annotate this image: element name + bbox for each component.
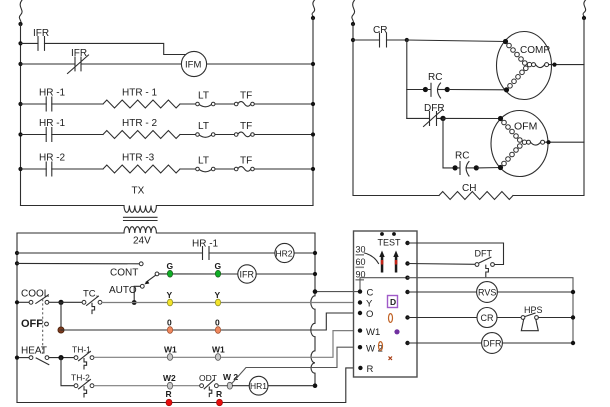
svg-text:CH: CH <box>462 183 476 194</box>
thermal fuse TF row 3 <box>234 91 313 107</box>
limit switch LT row 4 <box>180 121 234 137</box>
contact HR-1 row 3 <box>21 88 104 112</box>
svg-text:D: D <box>390 297 396 307</box>
node Y thermostat terminal 2 <box>215 290 221 306</box>
relay coil IFR <box>238 265 256 283</box>
svg-text:R: R <box>166 389 172 399</box>
svg-text:DFT: DFT <box>475 249 493 259</box>
node board pin DFR <box>405 341 409 345</box>
svg-text:Y: Y <box>167 290 173 300</box>
svg-text:DFR: DFR <box>424 103 445 114</box>
svg-text:ODT: ODT <box>199 373 217 383</box>
OFM winding common arm <box>498 144 522 170</box>
wire HPS to right vertical <box>538 317 573 319</box>
outdoor thermostat switch ODT <box>199 373 218 397</box>
transformer TX primary winding <box>124 186 156 213</box>
wire bottom R rail <box>17 368 358 403</box>
svg-text:HR2: HR2 <box>276 249 293 259</box>
defrost board outline <box>354 231 418 377</box>
resistor HTR-1 <box>103 88 180 109</box>
node right rail heater row 3 <box>311 167 315 171</box>
terminal W1 <box>358 327 380 338</box>
wire 24V top rail <box>17 232 315 234</box>
node left rail HEAT row <box>15 356 19 360</box>
OFM winding start arm <box>498 116 522 142</box>
svg-text:TF: TF <box>240 91 252 102</box>
wire W1 row <box>94 331 358 358</box>
node L1 rail top <box>18 22 22 26</box>
relay coil CR <box>477 308 497 328</box>
node right rail IFM row <box>311 62 315 66</box>
svg-text:OFF: OFF <box>21 318 43 330</box>
svg-text:60: 60 <box>356 257 366 267</box>
relay coil DFR <box>482 333 503 354</box>
node right rail G row <box>313 272 317 276</box>
node right rail C row <box>313 289 318 294</box>
node left rail IFM row <box>18 62 22 66</box>
node O thermostat terminal 2 <box>215 318 221 334</box>
node board top pin 1 <box>380 232 384 236</box>
node left rail heater row 1 <box>18 102 22 106</box>
node condenser right rail top <box>582 16 586 20</box>
svg-text:LT: LT <box>198 156 209 167</box>
pressure switch HPS <box>521 305 542 331</box>
node right vertical CR row <box>571 315 575 319</box>
svg-text:G: G <box>167 261 174 271</box>
wire IFR to right rail <box>256 273 315 275</box>
wire condenser right rail <box>513 18 584 196</box>
label 30 with underline <box>356 245 366 255</box>
node G thermostat terminal 1 <box>167 261 174 277</box>
wire left rail 24V ladder <box>16 233 18 403</box>
wire L2 supply squiggle top-right of left ladder <box>312 0 315 18</box>
node left rail CONT row <box>15 261 19 265</box>
node L2 rail top <box>311 16 315 20</box>
svg-text:HR -1: HR -1 <box>39 118 66 129</box>
terminal W2 <box>358 344 383 355</box>
wire RVS to right vertical <box>497 291 573 293</box>
svg-text:W 2: W 2 <box>366 344 383 355</box>
svg-text:DFR: DFR <box>483 339 502 349</box>
svg-text:CR: CR <box>481 313 494 323</box>
system switch linkage (dashed) <box>42 299 44 355</box>
node left rail IFR row <box>18 41 22 45</box>
svg-text:RVS: RVS <box>478 288 496 298</box>
wire AUTO terminal down to Y row <box>134 286 140 302</box>
system switch COOL <box>17 289 59 305</box>
wire DFR to right vertical <box>502 342 573 344</box>
svg-text:OFM: OFM <box>514 121 537 133</box>
COMP winding common arm <box>504 66 528 92</box>
svg-text:R: R <box>216 389 222 399</box>
wire C terminal jog inside board <box>315 278 408 292</box>
test pin 1 (arrow) <box>379 251 384 273</box>
wire Y row <box>102 302 358 304</box>
svg-text:HTR -3: HTR -3 <box>122 153 155 164</box>
fan switch blade with arrow <box>144 275 156 284</box>
svg-text:HEAT: HEAT <box>21 346 47 357</box>
svg-text:W2: W2 <box>163 373 176 383</box>
node O row junction (brown) <box>58 327 64 333</box>
svg-text:0: 0 <box>215 318 220 328</box>
svg-text:C: C <box>367 288 374 299</box>
wire board to CR <box>408 317 478 319</box>
svg-text:IFM: IFM <box>185 60 201 71</box>
COMP internal overload and run terminal <box>527 62 584 67</box>
contact DFR (N.C.) <box>407 103 501 127</box>
wire supply squiggle left <box>352 0 355 24</box>
wire W2 row to ODT <box>94 385 200 387</box>
node board pin CR <box>405 315 409 319</box>
wire board to RVS <box>408 291 477 293</box>
heating stage 1 switch TH-1 <box>72 345 94 369</box>
svg-text:COOL: COOL <box>21 289 50 300</box>
svg-text:W 2: W 2 <box>223 372 238 382</box>
node right rail end at HR1 row <box>313 383 318 388</box>
test pin 2 (arrow) <box>393 251 398 273</box>
svg-text:IFR: IFR <box>71 48 87 59</box>
node right vertical DFR row <box>571 341 575 345</box>
svg-text:COMP: COMP <box>520 45 550 56</box>
node left rail COOL row <box>15 300 19 304</box>
svg-text:IFR: IFR <box>240 270 255 280</box>
thermostat cooling switch TC <box>82 289 102 314</box>
contact CR <box>353 25 407 47</box>
terminal R <box>358 364 373 375</box>
node CR junction <box>405 38 409 42</box>
contact IFR (N.O.) row 1 <box>21 28 187 55</box>
node W2 thermostat terminal 2 <box>223 372 238 389</box>
svg-text:RC: RC <box>428 72 442 83</box>
thermal fuse TF row 4 <box>234 121 313 137</box>
wire L1 supply squiggle top-left <box>19 0 22 24</box>
wire branch vertical DFR to RC2 <box>443 118 453 167</box>
svg-text:IFR: IFR <box>33 28 49 39</box>
wire condenser left rail <box>353 24 439 196</box>
system switch OFF position <box>21 318 48 330</box>
motor IFM <box>181 51 206 76</box>
wire right rail top-left ladder <box>312 18 314 206</box>
svg-text:HTR - 2: HTR - 2 <box>122 118 157 129</box>
OFM internal overload and run terminal <box>522 140 584 145</box>
node W1 thermostat terminal 1 <box>164 345 177 361</box>
limit switch LT row 3 <box>180 91 234 107</box>
wire jumper from 30 to test pin <box>365 253 379 264</box>
wire C line to right vertical <box>408 278 574 343</box>
svg-text:HR -1: HR -1 <box>192 239 219 250</box>
svg-text:HR -2: HR -2 <box>39 153 66 164</box>
node W1 thermostat terminal 2 <box>212 345 225 361</box>
svg-text:RC: RC <box>455 151 469 162</box>
capacitor RC (fan run cap) <box>453 151 501 177</box>
contact HR-1 row 4 <box>21 118 104 142</box>
node left rail heater row 3 <box>18 167 22 171</box>
wire board to DFR <box>408 342 482 344</box>
wire bottom rail of top-left ladder <box>21 205 314 207</box>
capacitor RC (compressor run cap) <box>407 72 507 98</box>
fan switch pivot <box>155 272 159 276</box>
svg-text:HR -1: HR -1 <box>39 88 66 99</box>
resistor CH (crankcase heater) <box>439 183 513 200</box>
relay coil HR2 <box>275 243 294 262</box>
node R thermostat terminal 2 <box>216 389 223 406</box>
transformer TX secondary winding 24V <box>124 227 156 247</box>
wire COOL junction down to O row <box>60 302 62 330</box>
solenoid RVS <box>477 282 498 303</box>
svg-text:0: 0 <box>167 318 172 328</box>
svg-text:O: O <box>366 309 373 320</box>
node HEAT output junction <box>58 355 63 360</box>
node left rail heater row 2 <box>18 132 22 136</box>
label 60 with underline <box>356 257 366 267</box>
wire HR2 to right rail <box>294 252 315 254</box>
svg-text:W1: W1 <box>366 327 380 338</box>
node right vertical RVS row <box>571 290 575 294</box>
node board pin RVS <box>405 290 409 294</box>
motor COMP (compressor) <box>497 32 552 100</box>
wire board to DFT <box>408 263 476 266</box>
wire HEAT junction down to TH-2 row <box>61 358 74 386</box>
svg-text:W1: W1 <box>212 345 225 355</box>
svg-text:R: R <box>367 364 374 375</box>
node W2 thermostat terminal 1 <box>163 373 176 389</box>
svg-text:AUTO: AUTO <box>109 285 137 296</box>
wire COOL junction to TC <box>59 301 82 303</box>
component red mark on board <box>389 357 393 361</box>
node board pin C out <box>405 276 409 280</box>
svg-text:TH-2: TH-2 <box>71 373 90 383</box>
contact HR-1 (24V) <box>17 239 275 260</box>
limit switch LT row 5 <box>180 156 234 172</box>
node board pin DFT loop <box>405 241 409 245</box>
resistor HTR-3 <box>103 153 180 174</box>
svg-text:G: G <box>215 261 222 271</box>
svg-text:24V: 24V <box>133 236 151 247</box>
node right rail HR-1 row <box>313 251 317 255</box>
component D relay on board <box>388 296 398 308</box>
node AUTO to Y row junction <box>132 300 137 305</box>
svg-text:TF: TF <box>240 121 252 132</box>
node board top pin 2 <box>392 232 396 236</box>
label 90 with underline <box>356 270 366 280</box>
terminal C <box>358 288 374 299</box>
node COOL output junction <box>58 300 63 305</box>
svg-text:CR: CR <box>373 25 387 36</box>
wire CR to COMP run winding <box>407 40 506 42</box>
svg-text:TF: TF <box>240 156 252 167</box>
node O thermostat terminal 1 <box>167 318 173 334</box>
motor OFM (outdoor fan) <box>491 111 548 177</box>
svg-text:Y: Y <box>366 299 373 310</box>
resistor HTR-2 <box>103 118 180 139</box>
defrost thermostat DFT <box>475 249 495 277</box>
component purple dot on board <box>394 329 399 334</box>
node G thermostat terminal 2 <box>215 261 222 277</box>
thermal fuse TF row 5 <box>234 156 313 172</box>
node right rail heater row 2 <box>311 132 315 136</box>
svg-text:LT: LT <box>198 91 209 102</box>
terminal Y <box>358 299 373 310</box>
COMP winding start arm <box>503 39 527 65</box>
component orange cap 1 on board <box>389 314 393 323</box>
node right rail heater row 1 <box>311 102 315 106</box>
wire DFT loop <box>408 243 504 265</box>
svg-text:CONT: CONT <box>110 268 138 279</box>
terminal O <box>358 309 374 320</box>
wire IFM to right rail <box>207 63 313 65</box>
node board pin DFT <box>405 261 409 265</box>
wire O row <box>61 313 358 330</box>
node CR row left <box>351 38 355 42</box>
svg-text:W1: W1 <box>164 345 177 355</box>
svg-text:Y: Y <box>215 290 221 300</box>
contact IFR (N.C.) row 2 <box>21 48 182 74</box>
wire W2 diagonal up to board line <box>218 347 358 386</box>
relay coil HR1 <box>249 376 268 395</box>
wire supply squiggle right <box>583 0 586 18</box>
wire G row <box>159 273 238 275</box>
node R thermostat terminal 1 <box>166 389 173 406</box>
node condenser left rail top <box>351 22 355 26</box>
contact HR-2 row 5 <box>21 153 104 177</box>
component orange cap 2 on board <box>379 342 383 351</box>
wire right rail 24V ladder with hops over Y O W1 W2 rows <box>311 233 315 386</box>
wire HR1 to right rail <box>233 385 314 387</box>
svg-text:HR1: HR1 <box>250 381 267 391</box>
svg-text:TEST: TEST <box>378 238 402 248</box>
wire CONT row <box>17 262 139 264</box>
fan switch AUTO terminal <box>140 284 144 288</box>
node Y thermostat terminal 1 <box>167 290 173 306</box>
wire branch vertical to RC and DFR <box>406 40 408 118</box>
system switch HEAT <box>17 346 74 365</box>
wire left rail top-left ladder <box>20 24 22 206</box>
svg-text:TX: TX <box>132 186 145 197</box>
node left rail HR-1 row <box>15 251 19 255</box>
svg-text:HTR - 1: HTR - 1 <box>122 88 157 99</box>
transformer TX core <box>124 217 158 220</box>
wire CR to HPS <box>497 317 521 319</box>
fan switch CONT terminal <box>139 262 143 266</box>
svg-text:LT: LT <box>198 121 209 132</box>
heating stage 2 switch TH-2 <box>71 373 94 398</box>
